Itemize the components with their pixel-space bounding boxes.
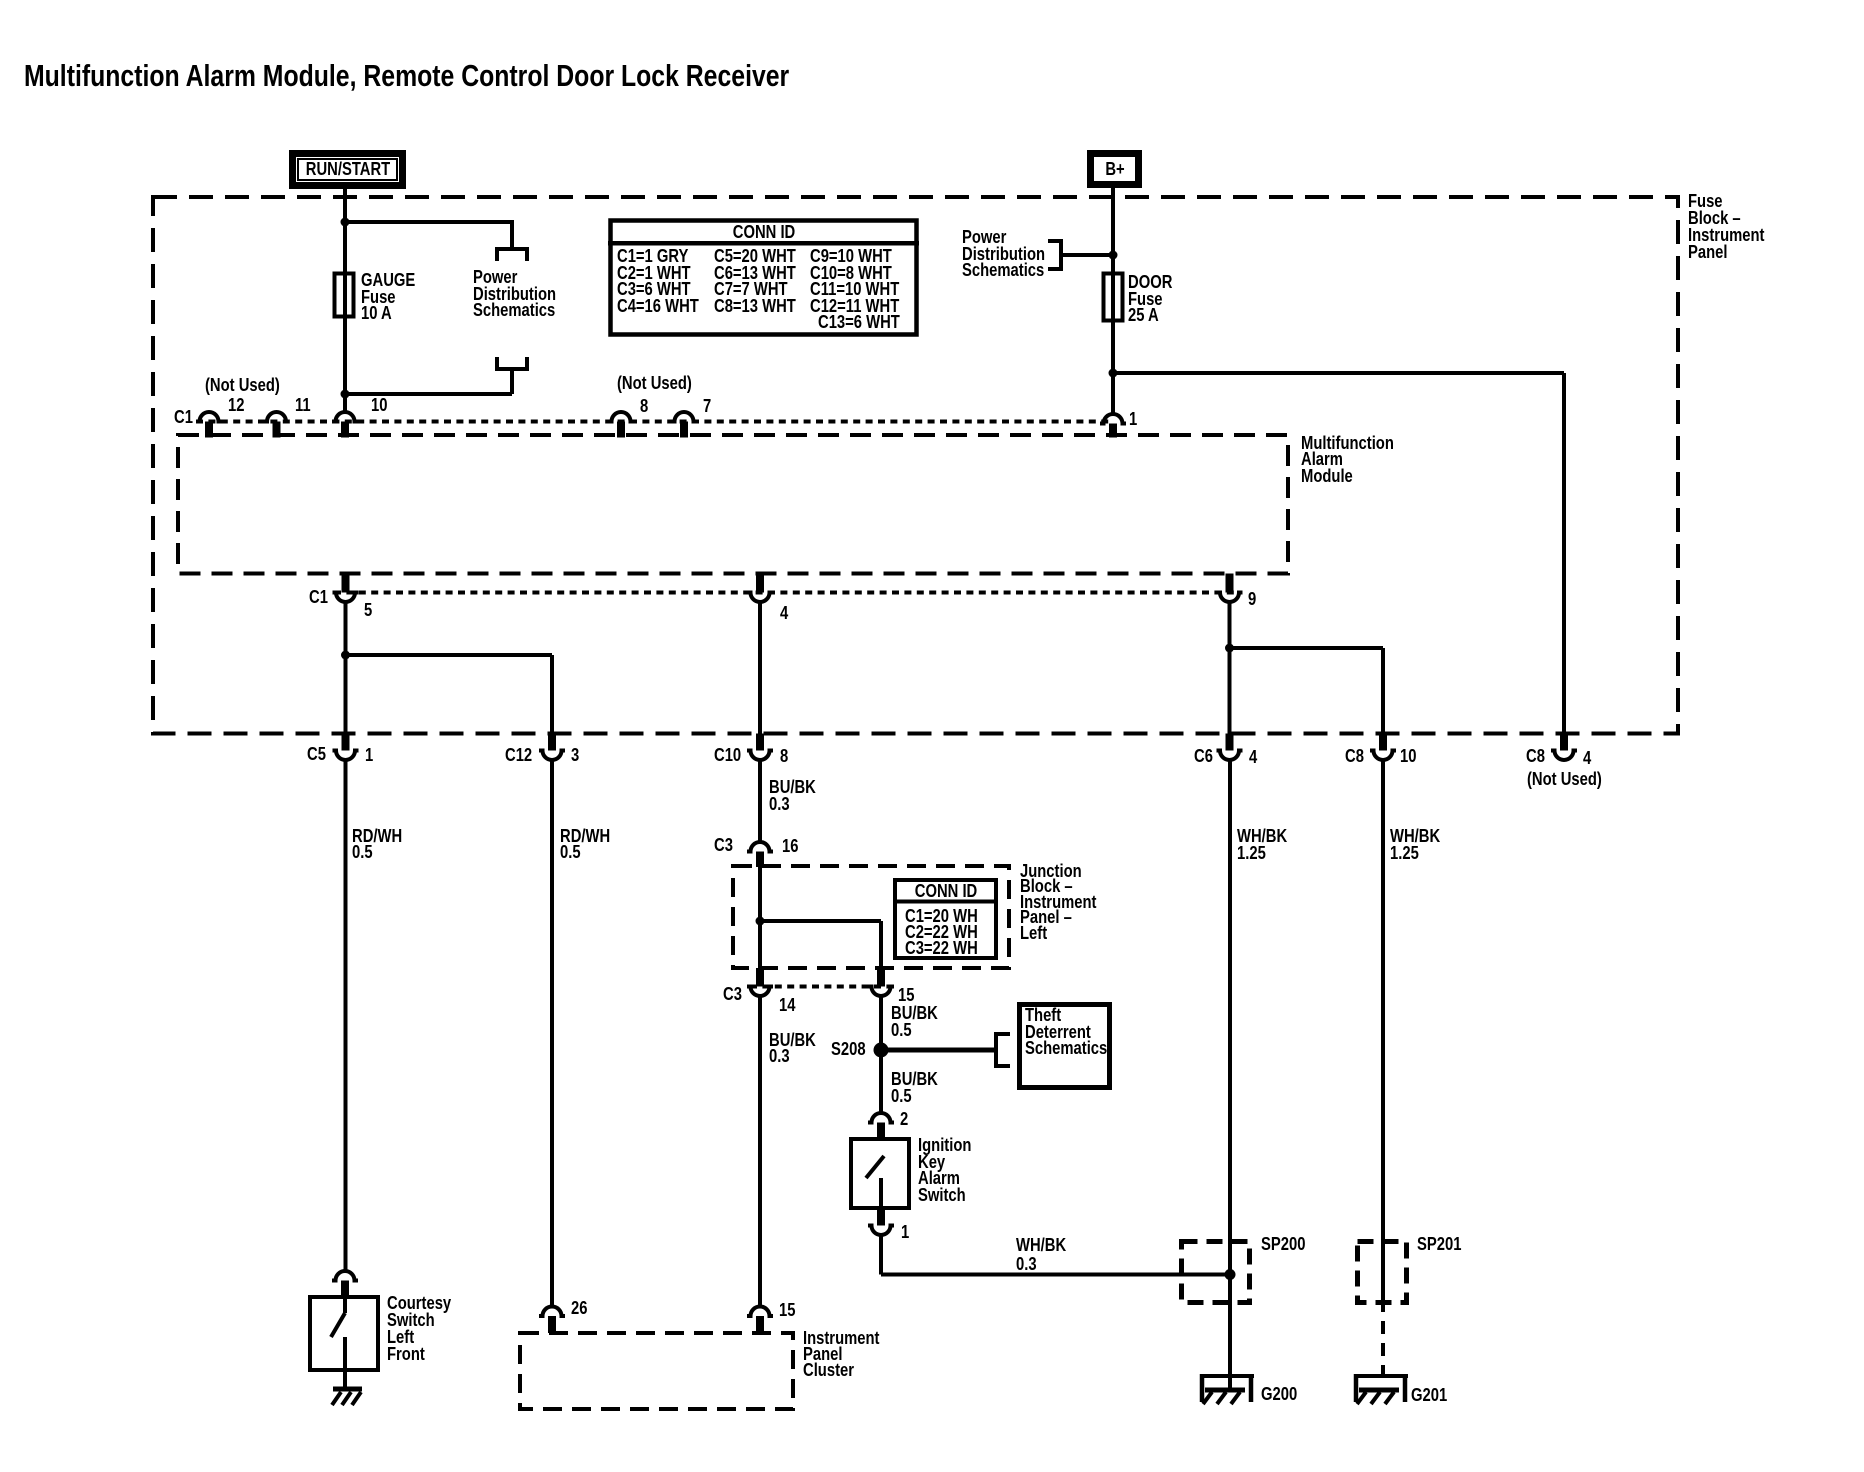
- wire junction block branch down: [879, 921, 883, 970]
- connector C1 pin 10 pin: [341, 422, 349, 438]
- power distribution bracket: [1048, 241, 1061, 269]
- label DOOR fuse: [1128, 274, 1172, 323]
- dotted line connector row C3: [750, 985, 892, 989]
- label B+: [1083, 161, 1147, 177]
- wire C6 pin4 through SP200 to G200: [1228, 760, 1232, 1390]
- junction block dashed box: [733, 866, 1009, 968]
- wire pin 9 to C6 pin 4: [1228, 602, 1232, 735]
- splice pack SP201 dashed box: [1358, 1242, 1407, 1303]
- CONN ID table separator: [608, 241, 919, 246]
- wire label RD/WH 2: [560, 828, 610, 861]
- connector C3 pin 14 pin: [756, 968, 764, 987]
- label multifunction alarm module: [1301, 435, 1394, 484]
- connector C1 pin 11 pin: [273, 422, 281, 438]
- wire right drop to C8 pin 4: [1562, 373, 1566, 735]
- connector cluster pin 15 arc: [747, 1307, 773, 1317]
- connector C1 pin 4 pin: [756, 574, 764, 593]
- wire branch to C8 pin 10: [1230, 646, 1384, 650]
- junction pin5 branch: [341, 651, 350, 660]
- wire pin 5 to C5 pin 1: [344, 602, 348, 735]
- wire down to power distribution top staple: [510, 220, 514, 247]
- CONN ID col3 last: [818, 314, 900, 330]
- wire C5 pin1 to courtesy switch: [344, 760, 348, 1271]
- wire branch down to C8 pin 10: [1381, 648, 1385, 735]
- label GAUGE fuse: [361, 272, 415, 321]
- label not used mid: [617, 375, 692, 391]
- courtesy switch blade: [331, 1313, 345, 1337]
- label not used left: [205, 377, 280, 393]
- wire label WH/BK 0.3: [1016, 1235, 1066, 1273]
- ignition switch lower contact: [879, 1178, 883, 1208]
- junction inside junction block: [756, 917, 765, 926]
- connector C8 10 arc: [1370, 751, 1396, 761]
- fuse block - instrument panel dashed box: [153, 197, 1678, 734]
- connector C1 pin 12 arc: [196, 412, 222, 422]
- wire C3 pin15 to S208: [879, 996, 883, 1114]
- splice S208: [874, 1043, 889, 1058]
- pin label 12: [228, 397, 244, 413]
- wire RUN/START to connector 10: [343, 189, 347, 413]
- theft deterrent schematics box: [1020, 1005, 1110, 1088]
- label G200: [1261, 1386, 1297, 1402]
- label junction block: [1020, 863, 1096, 940]
- ground G201 right wall: [1403, 1374, 1408, 1402]
- ground G201 bar: [1359, 1388, 1399, 1393]
- ignition key alarm switch box: [851, 1139, 909, 1208]
- pin label 1: [1129, 411, 1137, 427]
- connector pin 1 arc: [1100, 414, 1126, 424]
- connector C8 4 arc: [1551, 751, 1577, 761]
- junction B+ power distribution tap: [1109, 251, 1118, 260]
- title: [24, 60, 789, 91]
- courtesy switch lower contact: [343, 1337, 347, 1389]
- connector cluster pin 26 arc: [539, 1307, 565, 1317]
- label C6: [1194, 748, 1213, 764]
- pin label 4 notused: [1583, 750, 1591, 766]
- label instrument panel cluster: [803, 1330, 879, 1378]
- ground G200 symbol: [1200, 1374, 1254, 1378]
- ground G200 bar: [1205, 1388, 1245, 1393]
- dotted line connector row C1: [196, 420, 1113, 424]
- label C1: [174, 409, 193, 425]
- wire inside junction block: [758, 867, 762, 970]
- wire to power distribution bracket: [1061, 253, 1113, 257]
- wire branch to C12 pin 3: [346, 653, 553, 657]
- ground G200 left wall: [1200, 1374, 1205, 1402]
- connector courtesy switch arc: [332, 1271, 358, 1281]
- fuse GAUGE 10A symbol: [335, 274, 354, 317]
- connector C1 pin 9 arc: [1217, 593, 1243, 603]
- wire junction to power distribution top: [345, 220, 514, 224]
- connector pin 1 pin: [877, 1208, 885, 1226]
- small CONN ID rows: [905, 908, 978, 956]
- power distribution top staple: [497, 249, 527, 261]
- wire pin 4 to C10 pin 8: [758, 602, 762, 735]
- connector pin 1 pin: [1109, 424, 1117, 438]
- connector C3 pin 14 arc: [747, 987, 773, 997]
- CONN ID col1: [617, 248, 699, 314]
- splice pack SP200 dashed box: [1182, 1242, 1250, 1303]
- connector pin 2 arc: [868, 1113, 894, 1123]
- label G201: [1411, 1387, 1447, 1403]
- connector courtesy switch pin: [341, 1281, 349, 1298]
- connector C6 4 pin: [1226, 734, 1234, 751]
- pin label 11: [295, 397, 311, 413]
- wire label BU/BK 0.5 upper: [891, 1005, 938, 1038]
- label CONN ID header: [684, 224, 844, 240]
- pin label 1 ignition: [901, 1224, 909, 1240]
- pin label 2: [900, 1111, 908, 1127]
- wire C3 pin14 to cluster pin 15: [758, 996, 762, 1307]
- fuse DOOR 25A symbol: [1104, 274, 1123, 321]
- pin label 26: [571, 1300, 587, 1316]
- wire door fuse to right drop: [1113, 371, 1564, 375]
- courtesy switch top contact: [343, 1297, 347, 1313]
- CONN ID col3: [810, 248, 899, 314]
- label SP201: [1417, 1236, 1461, 1252]
- power symbol B+ box: [1091, 154, 1139, 185]
- ground G200 hatches: [1203, 1392, 1240, 1404]
- label courtesy switch: [387, 1294, 451, 1362]
- multifunction alarm module dashed box: [178, 435, 1288, 574]
- wire to SP200 splice: [881, 1273, 1232, 1277]
- wire power distribution bottom to junction: [343, 392, 512, 396]
- connector C1 pin 10 arc: [332, 412, 358, 422]
- power distribution bottom staple: [497, 357, 527, 369]
- label C3 row: [723, 986, 742, 1002]
- connector C10 8 pin: [756, 734, 764, 751]
- pin label 14: [779, 997, 795, 1013]
- ground courtesy switch hatches: [332, 1392, 361, 1405]
- pin label 1 row3: [365, 747, 373, 763]
- label ignition key alarm switch: [918, 1137, 971, 1203]
- wire S208 to theft deterrent bracket: [881, 1048, 996, 1053]
- connector cluster pin 15 pin: [756, 1316, 764, 1333]
- pin label 4 row3: [1249, 749, 1257, 765]
- wire branch down to C12 pin 3: [550, 655, 554, 735]
- pin label 15: [898, 987, 914, 1003]
- connector C1 pin 8 pin: [617, 422, 625, 438]
- connector C8 10 pin: [1379, 734, 1387, 751]
- label C1 row2: [309, 589, 328, 605]
- junction at gauge fuse bottom: [341, 390, 350, 399]
- pin label 9: [1248, 591, 1256, 607]
- pin label 8 row3: [780, 748, 788, 764]
- connector C12 3 arc: [539, 751, 565, 761]
- pin label 10: [371, 397, 387, 413]
- connector C3 pin 16 arc: [747, 842, 773, 852]
- ground courtesy switch bar: [333, 1387, 362, 1392]
- label C5: [307, 746, 326, 762]
- wire C8 pin10 to SP201: [1381, 760, 1385, 1299]
- ground G201 symbol: [1354, 1374, 1408, 1378]
- label S208: [831, 1041, 866, 1057]
- wire label BU/BK top: [769, 779, 816, 812]
- connector cluster pin 26 pin: [548, 1316, 556, 1333]
- wire B+ to connector 1: [1111, 188, 1115, 414]
- label C8: [1345, 748, 1364, 764]
- label theft deterrent: [1025, 1007, 1107, 1056]
- power symbol RUN/START box inner: [298, 159, 397, 180]
- connector C12 3 pin: [548, 734, 556, 751]
- wire label WH/BK 1: [1237, 828, 1287, 861]
- instrument panel cluster dashed box: [520, 1333, 793, 1409]
- connector C1 pin 4 arc: [747, 593, 773, 603]
- pin label 7: [703, 398, 711, 414]
- wire ignition switch to SP200: [879, 1235, 883, 1275]
- connector C1 pin 12 pin: [205, 422, 213, 438]
- CONN ID col2: [714, 248, 796, 314]
- label small CONN ID header: [898, 883, 994, 899]
- label fuse block: [1688, 193, 1764, 260]
- label RUN/START: [284, 161, 412, 177]
- wire label RD/WH 1: [352, 828, 402, 861]
- ignition switch blade: [866, 1156, 884, 1178]
- courtesy switch left front box: [310, 1297, 378, 1370]
- junction block CONN ID separator: [893, 900, 998, 904]
- wire power distribution bottom staple down: [510, 369, 514, 394]
- connector C6 4 arc: [1217, 751, 1243, 761]
- connector C3 pin 15 pin: [877, 968, 885, 987]
- CONN ID table box: [611, 221, 917, 335]
- pin label 16: [782, 838, 798, 854]
- connector pin 2 pin: [877, 1123, 885, 1140]
- connector C1 pin 9 pin: [1226, 574, 1234, 593]
- theft deterrent bracket: [996, 1034, 1010, 1066]
- pin label 10 row3: [1400, 748, 1416, 764]
- pin label 5: [364, 602, 372, 618]
- connector C5 1 arc: [333, 751, 359, 761]
- wire label BU/BK 0.3 left: [769, 1032, 816, 1065]
- connector C3 pin 15 arc: [868, 987, 894, 997]
- junction at gauge fuse top: [341, 218, 350, 227]
- pin label 8: [640, 398, 648, 414]
- connector C1 pin 11 arc: [264, 412, 290, 422]
- label power distribution left: [473, 269, 556, 318]
- connector C1 pin 5 arc: [333, 593, 359, 603]
- pin label 15 cluster: [779, 1302, 795, 1318]
- junction door fuse output: [1109, 369, 1118, 378]
- junction pin9 branch: [1225, 644, 1234, 653]
- dashed wire SP201 to G201: [1381, 1299, 1385, 1377]
- ground G201 left wall: [1354, 1374, 1359, 1402]
- connector C1 pin 8 arc: [608, 412, 634, 422]
- wire junction block branch: [760, 919, 881, 923]
- pin label 4: [780, 605, 788, 621]
- power symbol RUN/START box outer: [293, 154, 403, 186]
- pin label 3: [571, 747, 579, 763]
- label C8 notused: [1526, 748, 1545, 764]
- label power distribution right: [962, 229, 1045, 278]
- label C10: [714, 747, 741, 763]
- connector C10 8 arc: [747, 751, 773, 761]
- connector pin 1 arc: [868, 1226, 894, 1236]
- connector C1 pin 5 pin: [342, 574, 350, 593]
- label C3 16: [714, 837, 733, 853]
- connector C5 1 pin: [342, 734, 350, 751]
- connector C3 pin 16 pin: [756, 852, 764, 868]
- connector C8 4 pin: [1560, 734, 1568, 751]
- junction block CONN ID table: [895, 880, 996, 958]
- dotted line connector row C1 bottom: [334, 591, 1241, 595]
- wire label WH/BK 2: [1390, 828, 1440, 861]
- splice SP200 junction: [1225, 1269, 1236, 1280]
- wire label BU/BK 0.5 lower: [891, 1071, 938, 1104]
- label not used right: [1527, 771, 1602, 787]
- connector C1 pin 7 pin: [680, 422, 688, 438]
- label C12: [505, 747, 532, 763]
- ground G200 right wall: [1249, 1374, 1254, 1402]
- ground G201 hatches: [1357, 1392, 1394, 1404]
- wire C10 pin8 to C3 pin16: [758, 760, 762, 842]
- connector C1 pin 7 arc: [671, 412, 697, 422]
- label SP200: [1261, 1236, 1305, 1252]
- wire C12 pin3 to cluster pin 26: [550, 760, 554, 1307]
